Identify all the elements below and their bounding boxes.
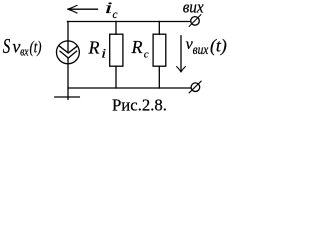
svg-text:с: с: [113, 7, 119, 21]
svg-text:(t): (t): [210, 35, 227, 56]
svg-text:S: S: [3, 34, 11, 58]
svg-text:R: R: [131, 37, 143, 57]
svg-text:R: R: [88, 37, 100, 57]
svg-text:вих: вих: [193, 43, 209, 58]
svg-text:вх: вх: [20, 43, 29, 58]
svg-text:Рис.2.8.: Рис.2.8.: [112, 95, 167, 114]
svg-text:i: i: [101, 47, 106, 61]
svg-text:с: с: [144, 48, 149, 60]
svg-text:вих: вих: [183, 0, 204, 17]
svg-text:i: i: [105, 0, 113, 16]
svg-text:(t): (t): [30, 38, 42, 57]
